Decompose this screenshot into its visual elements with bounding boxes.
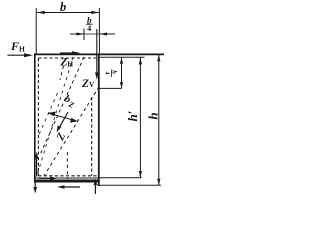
svg-text:b: b <box>60 0 66 14</box>
svg-text:h: h <box>146 112 161 119</box>
svg-text:4: 4 <box>87 24 91 33</box>
svg-text:F: F <box>10 39 19 53</box>
svg-text:H: H <box>19 45 25 54</box>
svg-text:Z: Z <box>81 78 89 90</box>
svg-text:h′: h′ <box>125 110 140 121</box>
svg-text:H: H <box>67 59 73 68</box>
svg-text:V: V <box>89 80 95 89</box>
svg-text:4: 4 <box>104 72 110 75</box>
